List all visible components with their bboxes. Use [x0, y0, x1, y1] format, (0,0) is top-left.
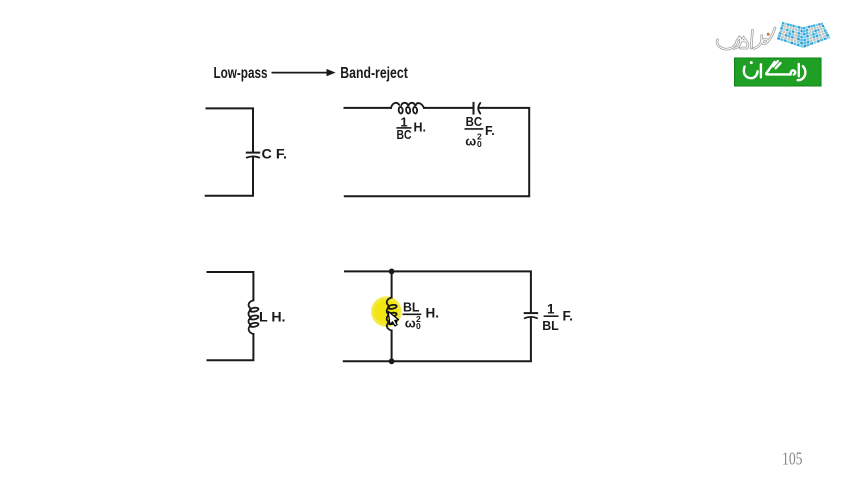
- svg-text:C F.: C F.: [262, 147, 288, 162]
- svg-text:105: 105: [782, 448, 803, 468]
- svg-text:F.: F.: [563, 308, 574, 323]
- svg-text:BL: BL: [403, 299, 420, 314]
- svg-text:BL: BL: [542, 318, 559, 333]
- svg-text:L H.: L H.: [259, 309, 286, 325]
- svg-text:0: 0: [416, 321, 421, 331]
- svg-text:ω: ω: [405, 316, 416, 331]
- svg-text:BC: BC: [466, 115, 483, 129]
- svg-text:ω: ω: [465, 134, 476, 149]
- svg-text:1: 1: [547, 301, 555, 316]
- svg-text:Low-pass: Low-pass: [214, 65, 268, 82]
- svg-text:F.: F.: [485, 124, 495, 138]
- svg-text:0: 0: [477, 139, 482, 149]
- svg-text:H.: H.: [414, 121, 427, 135]
- svg-text:BC: BC: [397, 128, 412, 142]
- svg-text:H.: H.: [426, 305, 440, 320]
- svg-text:Band-reject: Band-reject: [340, 65, 408, 82]
